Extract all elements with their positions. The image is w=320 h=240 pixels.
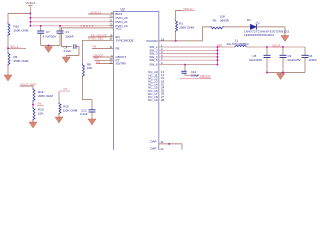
svg-text:SS: SS	[96, 60, 100, 64]
svg-text:FB: FB	[93, 45, 97, 49]
junction dots VOUT	[266, 46, 284, 48]
wire rail PVIN_20	[30, 17, 113, 19]
op-amp U2 (IC box)	[114, 8, 159, 154]
wire R10 to R6	[7, 36, 9, 53]
IC right pin names	[146, 39, 158, 151]
svg-text:C1: C1	[65, 30, 69, 34]
ground	[45, 47, 53, 53]
svg-text:DAP: DAP	[150, 147, 156, 150]
node CBOOT wire	[93, 56, 114, 58]
svg-text:0603R: 0603R	[220, 18, 230, 22]
svg-text:L1: L1	[235, 39, 239, 43]
svg-text:NC_19: NC_19	[148, 98, 158, 102]
svg-text:28: 28	[161, 98, 165, 102]
IC right pin numbers	[161, 37, 165, 150]
svg-text:100nF: 100nF	[65, 34, 74, 38]
wire rail PVIN_21	[30, 21, 113, 23]
svg-text:VCC: VCC	[116, 26, 123, 30]
capacitor C7	[37, 26, 56, 46]
svg-text:21: 21	[161, 140, 165, 144]
svg-text:22: 22	[161, 147, 165, 150]
svg-text:12: 12	[109, 60, 113, 64]
svg-text:22uF/25V: 22uF/25V	[249, 58, 262, 62]
svg-text:17: 17	[109, 37, 113, 41]
wire SW_1	[159, 46, 235, 48]
svg-text:110K OHM: 110K OHM	[63, 108, 78, 112]
resistor R10	[8, 23, 29, 37]
junction dots VDD12 rails	[30, 13, 61, 27]
node RT resistor column	[58, 91, 60, 102]
svg-text:4.7uF/50V: 4.7uF/50V	[43, 34, 57, 38]
svg-text:100pF: 100pF	[191, 74, 200, 78]
capacitor C22	[80, 108, 96, 119]
wire R8 to C22	[83, 77, 93, 110]
svg-text:SYNC/MODE: SYNC/MODE	[116, 38, 134, 42]
svg-text:R2: R2	[213, 18, 217, 22]
wire PGOOD	[159, 27, 210, 41]
svg-text:200K OHM: 200K OHM	[179, 25, 194, 29]
svg-text:FB: FB	[116, 47, 120, 51]
svg-text:C7: C7	[46, 30, 50, 34]
svg-text:VDD12: VDD12	[25, 1, 35, 5]
wire DAP	[159, 144, 182, 150]
ground	[281, 36, 289, 42]
svg-text:2.2uF: 2.2uF	[80, 112, 88, 116]
svg-text:2.2uF: 2.2uF	[64, 49, 72, 53]
svg-text:22uF/25V: 22uF/25V	[288, 58, 301, 62]
svg-text:SS/TRK: SS/TRK	[116, 62, 127, 66]
svg-text:VOUT_SNS: VOUT_SNS	[20, 82, 36, 86]
node FB junction	[32, 102, 34, 108]
wire SW6 to C14	[184, 65, 186, 72]
wire VOUT rail	[246, 46, 305, 48]
node EN wire	[88, 36, 114, 38]
svg-text:250K OHM: 250K OHM	[14, 59, 29, 63]
svg-text:EN_1: EN_1	[11, 44, 19, 48]
resistor R1	[176, 7, 195, 41]
node FB wire	[92, 47, 114, 49]
node SS wire	[96, 63, 114, 65]
wire R6 to gnd	[7, 65, 9, 75]
ground	[4, 75, 12, 81]
svg-text:208K OHM: 208K OHM	[38, 94, 53, 98]
resistor R6	[8, 52, 29, 66]
svg-text:SW_6: SW_6	[149, 63, 158, 67]
svg-text:FB: FB	[38, 102, 42, 106]
svg-text:CBOOT: CBOOT	[200, 74, 211, 78]
svg-text:11: 11	[110, 45, 113, 49]
capacitor C8	[249, 47, 271, 73]
svg-text:10K: 10K	[38, 111, 43, 115]
ground	[88, 119, 96, 125]
node EN_1 stub	[8, 47, 26, 49]
capacitor C14	[180, 70, 212, 79]
wire R2 to D1	[224, 26, 250, 28]
svg-text:VOUT: VOUT	[272, 43, 281, 47]
svg-text:LEDM1608K50GRN1: LEDM1608K50GRN1	[244, 33, 275, 37]
resistor R2	[210, 14, 230, 29]
wire R19 to gnd	[58, 115, 60, 118]
wire R20 to gnd	[32, 121, 34, 123]
wire SW_3	[160, 53, 218, 55]
svg-text:SW_5: SW_5	[149, 58, 158, 62]
inductor L1	[227, 39, 249, 47]
svg-text:SW: SW	[217, 43, 222, 47]
svg-text:PGOOD: PGOOD	[146, 39, 158, 43]
svg-text:250K OHM: 250K OHM	[14, 28, 29, 32]
resistor R8	[83, 62, 93, 77]
wire D1 to gnd	[256, 27, 285, 36]
capacitor C6	[302, 47, 318, 73]
svg-text:DAP: DAP	[150, 140, 156, 144]
wire C7/C1 ground rail	[41, 45, 60, 47]
wire SW_5	[160, 59, 218, 61]
node RT wire	[95, 59, 114, 61]
svg-text:RT: RT	[64, 87, 68, 91]
wire SW_6	[160, 64, 218, 66]
svg-text:D1: D1	[247, 18, 251, 22]
ground	[29, 122, 37, 128]
svg-text:10K: 10K	[87, 66, 92, 70]
IC left pin numbers	[109, 11, 113, 65]
resistor R19	[59, 103, 78, 115]
node VOUT_SNS stub	[20, 86, 33, 88]
IC left pin names	[116, 12, 134, 66]
capacitor C4	[64, 44, 80, 55]
resistor R20	[33, 107, 44, 121]
wire SW_4	[160, 56, 218, 58]
capacitor C9	[280, 47, 301, 73]
svg-text:VDD12: VDD12	[80, 24, 94, 28]
diode D1 (LED)	[244, 18, 289, 37]
node BIAS wire with VDD12 label	[88, 13, 114, 15]
ground	[62, 55, 70, 63]
wire rail PVIN_23	[30, 25, 113, 27]
wire SW_2	[160, 49, 218, 51]
ground	[55, 117, 63, 123]
wire VDD12 branch left to R10	[8, 14, 30, 23]
wire VDD12 vertical	[29, 9, 31, 26]
capacitor C1	[57, 26, 74, 46]
junction dots SW bus	[184, 46, 218, 65]
wire SW bus vertical	[217, 47, 219, 65]
svg-text:U2: U2	[121, 8, 125, 12]
wire output gnd rail	[267, 72, 305, 74]
resistor R16	[33, 88, 53, 102]
wire VCC with VDD12 net label	[61, 28, 113, 47]
svg-text:100nF: 100nF	[309, 58, 318, 62]
ground	[277, 73, 285, 80]
power symbol VDD12	[25, 1, 35, 8]
